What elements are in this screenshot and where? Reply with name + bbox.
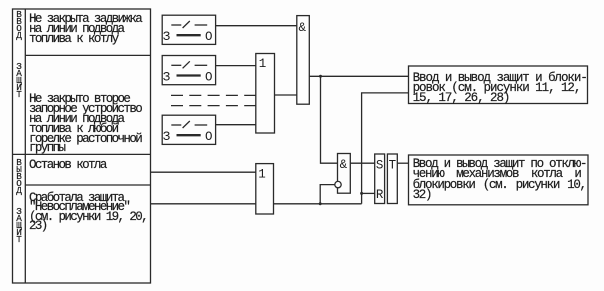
wire S3 output to OR U2 [216, 124, 256, 126]
row separator 2/3 (full width) [13, 153, 151, 155]
box B1 frame [409, 66, 588, 104]
switch S2 (З-О contact, second shutoff) [162, 56, 215, 85]
wire U1 output to box B1 [309, 75, 408, 77]
wire U2 output to AND U1 [275, 94, 297, 96]
svg-text:О: О [205, 130, 213, 144]
row label ВЫВОД [12, 159, 26, 194]
row separator 1/2 [25, 54, 150, 56]
svg-text:&: & [340, 158, 348, 172]
OR gate U3 "1" [256, 164, 274, 214]
wire junction up to inverted input of U4 [320, 185, 335, 204]
dashed wire (more inputs) upper [171, 94, 256, 96]
wire R tap to trigger R input [362, 192, 375, 194]
trigger T1 T section [387, 154, 397, 204]
OR gate U2 "1" [256, 54, 275, 134]
box B1 text [413, 73, 587, 103]
svg-text:О: О [205, 30, 213, 44]
signal row 2 text [29, 95, 141, 154]
signal row 3 text [29, 161, 106, 171]
svg-text:R: R [376, 188, 384, 202]
svg-text:1: 1 [259, 57, 267, 71]
table column divider [24, 9, 26, 283]
junction node at R tap [360, 192, 363, 195]
box B2 text [413, 159, 587, 199]
wire junction down to AND U4 top input [321, 76, 338, 163]
row label ЗАЩИТ (upper) [12, 63, 26, 98]
wire U4 output to trigger S input [350, 162, 374, 164]
wire S2 output to OR U2 [216, 65, 256, 67]
trigger T1 S/R section [375, 154, 385, 204]
row label ВВОД [12, 11, 26, 39]
row label ЗАЩИТ (lower) [12, 208, 26, 243]
svg-text:1: 1 [258, 168, 266, 182]
switch S1 (З-О contact, valve closed) [162, 15, 215, 44]
wire U3 output to vertical riser [274, 203, 362, 205]
svg-text:З: З [163, 70, 171, 84]
svg-text:&: & [299, 21, 307, 35]
table frame [13, 9, 151, 283]
wire riser from U3 output up to box B1 [362, 93, 409, 204]
dashed wire (more inputs) lower [171, 105, 256, 107]
switch S3 (З-О contact, burner shutoff) [162, 115, 215, 144]
wire S1 output to AND U1 [216, 25, 297, 27]
AND gate U1 "&" [297, 16, 310, 105]
svg-text:S: S [376, 159, 384, 173]
wire trigger output to box B2 [397, 162, 408, 164]
row separator 3/4 [25, 184, 150, 186]
box B2 frame [409, 155, 589, 205]
AND gate U4 "&" with inverted input [335, 154, 351, 194]
svg-text:З: З [163, 130, 171, 144]
junction node on U3 output [319, 202, 322, 205]
svg-text:З: З [163, 30, 171, 44]
signal row 4 text [29, 194, 147, 232]
svg-text:T: T [389, 159, 397, 173]
signal row 1 text [29, 15, 141, 45]
svg-text:О: О [205, 70, 213, 84]
wire table row 3 to OR U3 [151, 171, 256, 173]
junction node at U1 output [319, 75, 322, 78]
wire table row 4 to OR U3 [151, 203, 256, 205]
